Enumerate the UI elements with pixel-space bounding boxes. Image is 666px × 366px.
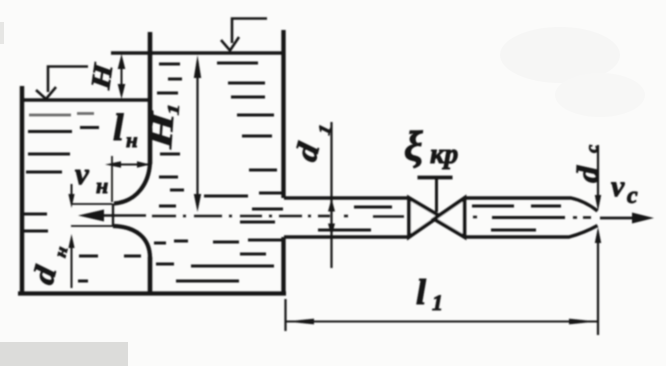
dividing wall lower segment	[148, 257, 153, 294]
dimension d_n lower arrow	[68, 234, 74, 288]
label H	[86, 61, 119, 92]
flow dashes pipe2	[472, 206, 561, 230]
pipe1 top edge	[284, 196, 409, 199]
center line axis dash-dot	[152, 216, 591, 218]
water dashes tank2 left sliver	[154, 64, 188, 264]
tank1 left wall	[20, 86, 25, 295]
level mark tank1 arrowhead	[36, 87, 56, 99]
pipe2 bottom edge with exit taper	[465, 226, 598, 238]
dimension l_n double arrow	[105, 161, 150, 168]
scan smudge top-left	[0, 22, 4, 44]
svg-text:ξ: ξ	[404, 124, 423, 170]
label xi_kr	[404, 124, 458, 170]
dimension d_n upper arrow	[68, 184, 74, 208]
svg-text:н: н	[50, 244, 71, 259]
svg-text:н: н	[96, 173, 108, 198]
label H1	[141, 102, 183, 151]
svg-text:H: H	[86, 61, 119, 92]
svg-text:1: 1	[432, 290, 443, 315]
dimension l1 line with arrows	[286, 319, 597, 325]
label v_c	[611, 170, 638, 209]
dimension l1 left extension	[284, 299, 286, 331]
water dashes tank2 main	[176, 63, 283, 281]
svg-text:l: l	[113, 107, 124, 149]
label d_c	[570, 144, 606, 183]
label v_n	[75, 156, 108, 198]
svg-text:н: н	[126, 128, 138, 152]
dimension d1 line upper	[328, 122, 335, 212]
label d_n	[25, 240, 71, 289]
label l_n	[113, 107, 138, 152]
svg-text:l: l	[416, 272, 426, 312]
dimension H line	[118, 54, 126, 99]
dimension d_n lower extension	[71, 225, 114, 227]
tanks shared bottom	[18, 291, 286, 295]
dimension d_c line upper	[595, 145, 601, 211]
tank2 right wall lower segment	[281, 237, 285, 295]
svg-text:d: d	[25, 262, 63, 288]
label d1	[289, 118, 335, 166]
svg-text:d: d	[289, 139, 327, 165]
valve stem	[435, 178, 438, 212]
level mark tank2 knee line	[232, 19, 267, 44]
pipe1 bottom edge	[284, 235, 409, 238]
dimension l_n extension line	[111, 156, 113, 202]
tank1 water surface	[21, 98, 150, 102]
svg-text:1: 1	[164, 103, 183, 116]
level mark tank1 knee line	[48, 67, 88, 93]
water dashes tank1	[29, 114, 94, 116]
svg-text:c: c	[582, 144, 602, 153]
nozzle upper bell curve	[114, 163, 150, 204]
tank2 water surface with left extension	[111, 51, 282, 55]
tank2 right wall upper segment	[281, 30, 285, 198]
valve right triangle	[434, 198, 465, 237]
dimension d1 line lower	[328, 199, 335, 268]
flow arrow into tank1	[78, 210, 146, 222]
flow dashes pipe1	[318, 207, 392, 230]
svg-text:d: d	[570, 165, 606, 184]
svg-text:кр: кр	[430, 139, 458, 170]
nozzle lower bell curve	[113, 226, 150, 258]
pipe2 top edge with exit taper	[465, 198, 598, 211]
svg-text:v: v	[611, 170, 625, 203]
faint ghosting top-right	[500, 27, 620, 83]
nozzle throat lip	[112, 204, 114, 227]
exit velocity arrow v_c	[600, 213, 654, 224]
dividing wall upper segment	[148, 32, 153, 164]
dimension d_n upper extension	[71, 203, 112, 205]
level mark tank2 arrowhead	[221, 37, 239, 51]
valve handle	[418, 176, 453, 180]
svg-text:c: c	[627, 183, 638, 209]
dimension d_c line lower	[595, 227, 601, 335]
valve left triangle	[409, 198, 440, 237]
svg-text:v: v	[75, 156, 90, 191]
label l1	[416, 272, 443, 315]
dimension H1 line	[194, 55, 201, 212]
scan smudge bottom-left	[0, 342, 128, 366]
